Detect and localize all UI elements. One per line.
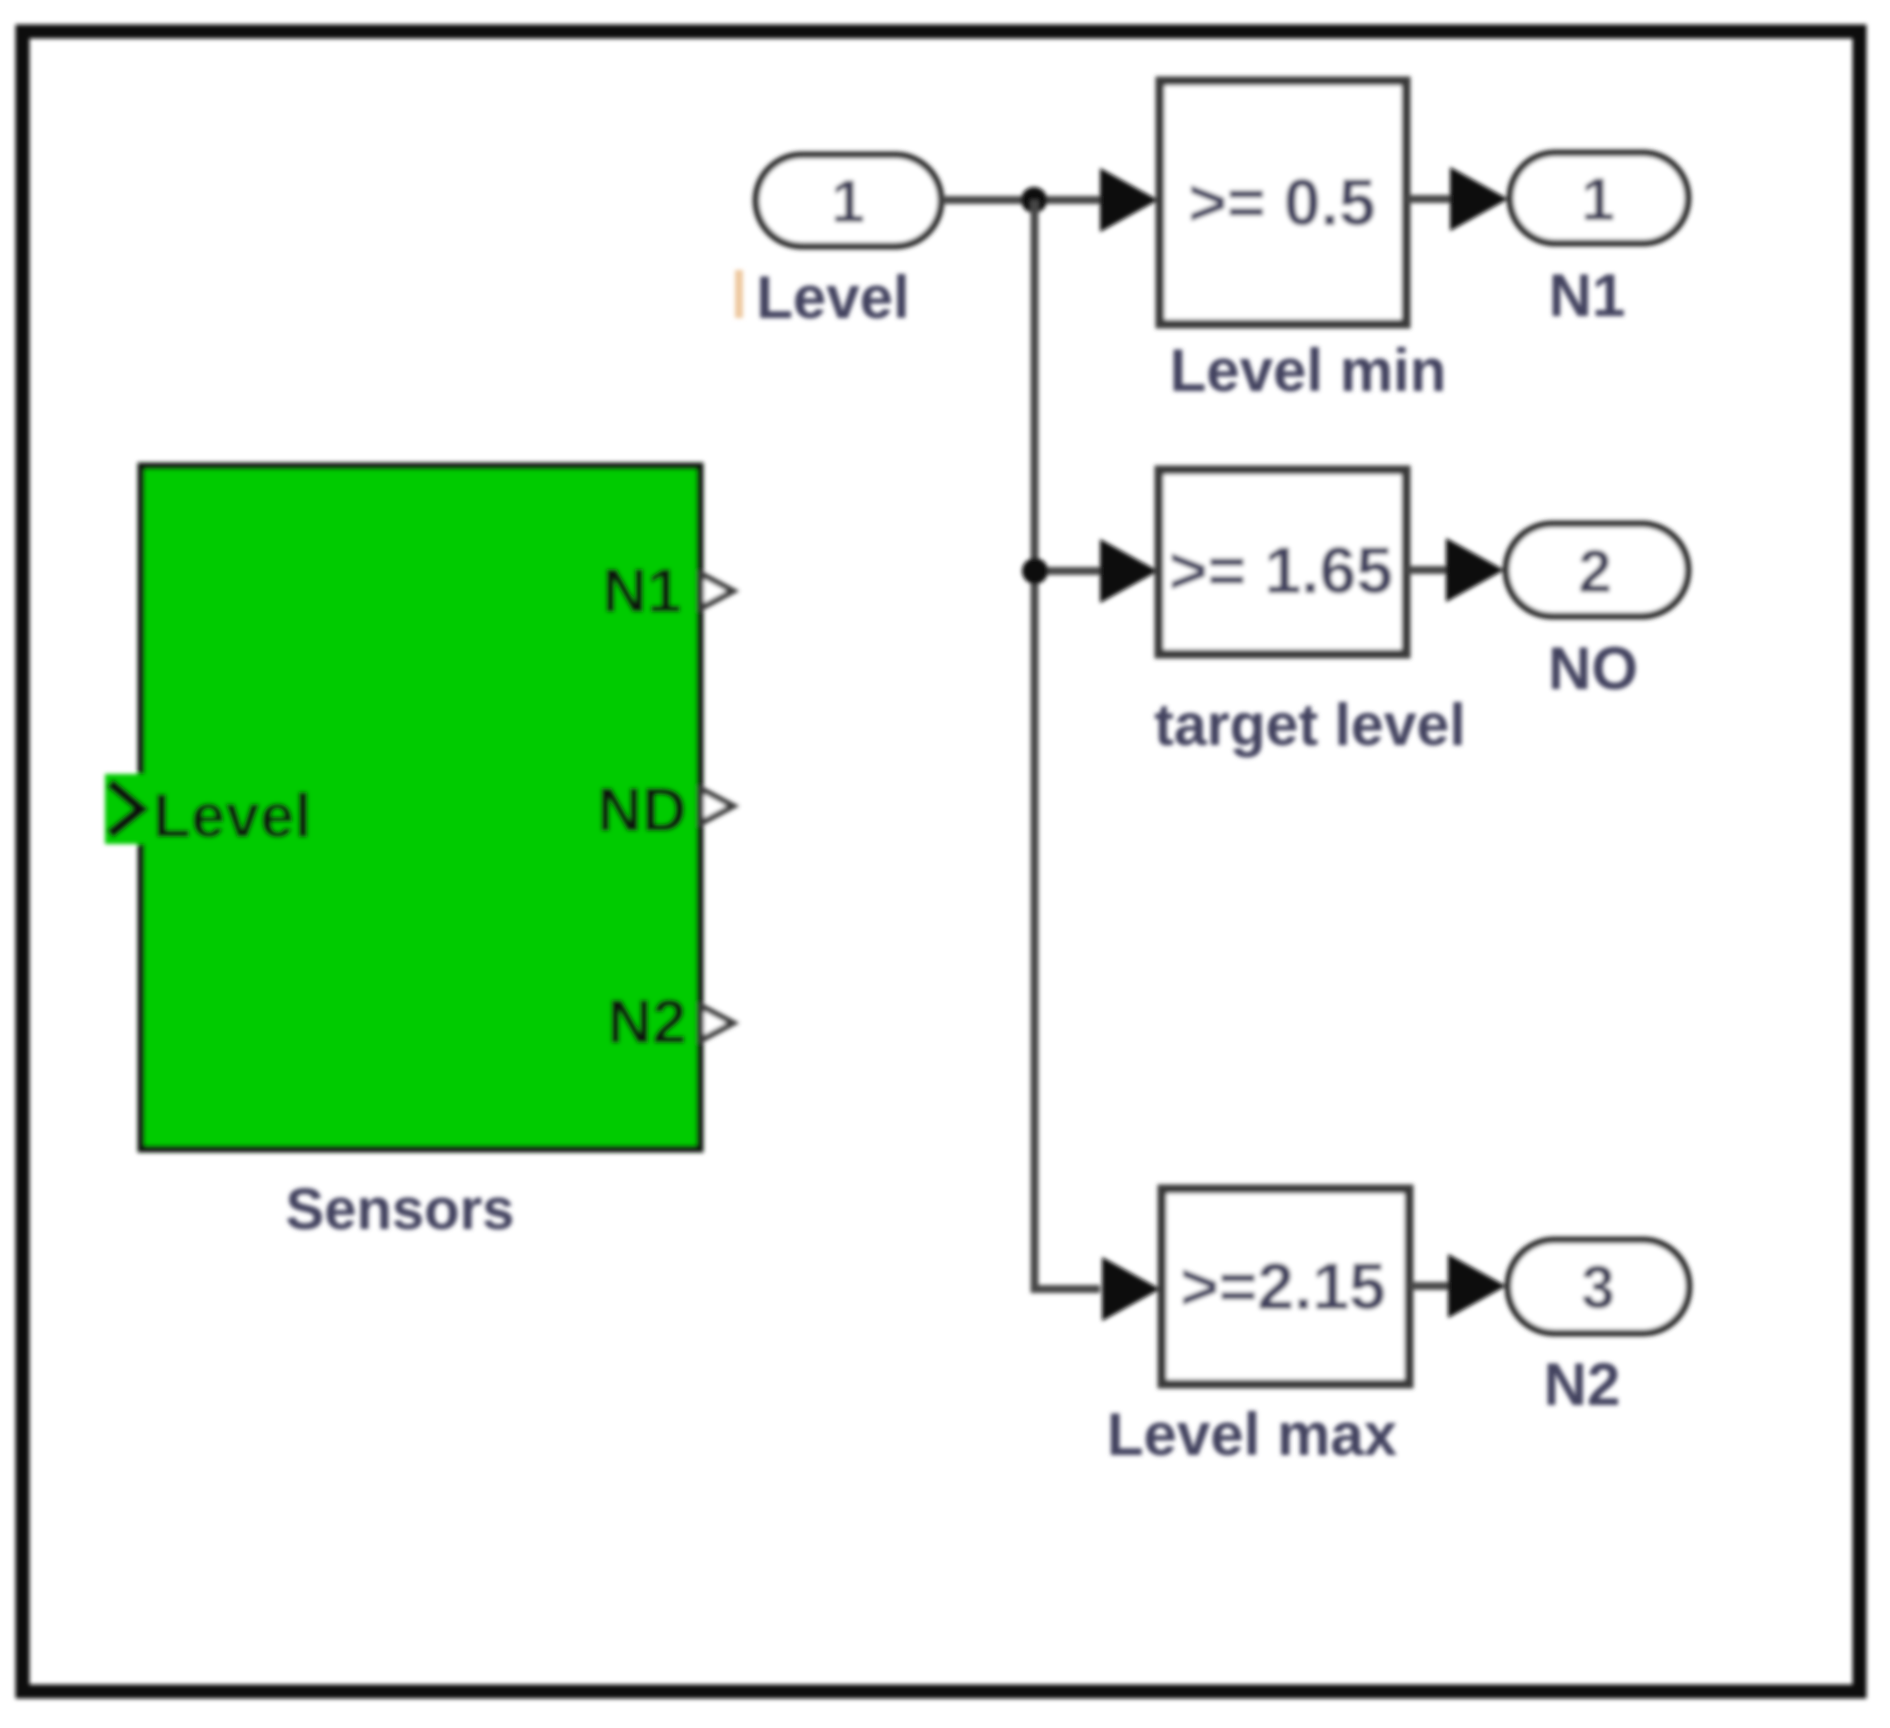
wire Level max to outport N2 xyxy=(1409,1282,1452,1290)
relational block Level max (>= 2.15) xyxy=(1162,1189,1409,1384)
output chevron N1 xyxy=(701,574,733,608)
arrowhead into target level xyxy=(1100,539,1158,603)
inport 1 (Level) xyxy=(756,155,941,246)
svg-text:Sensors: Sensors xyxy=(286,1177,515,1242)
svg-text:Level min: Level min xyxy=(1170,337,1447,404)
output chevron ND xyxy=(701,789,733,823)
svg-text:1: 1 xyxy=(831,168,864,235)
arrowhead into Level min xyxy=(1100,168,1158,232)
relational block target level (>= 1.65) xyxy=(1159,470,1406,654)
svg-text:N2: N2 xyxy=(607,988,686,1057)
svg-text:2: 2 xyxy=(1578,538,1611,605)
arrowhead into outport N2 xyxy=(1448,1254,1506,1318)
outport 3 (N2) xyxy=(1508,1240,1689,1333)
wire target level to outport NO xyxy=(1406,566,1450,574)
wire corner into Level max xyxy=(1035,1285,1101,1289)
svg-text:target level: target level xyxy=(1154,692,1466,758)
svg-text:>= 1.65: >= 1.65 xyxy=(1169,533,1393,607)
svg-text:Level max: Level max xyxy=(1107,1401,1397,1468)
svg-text:>=2.15: >=2.15 xyxy=(1180,1249,1386,1323)
arrowhead into Level max xyxy=(1102,1257,1160,1321)
relational block Level min (>= 0.5) xyxy=(1160,81,1406,324)
junction A dot xyxy=(1021,187,1047,213)
wire junction B to target level xyxy=(1034,567,1102,575)
wire vertical branch xyxy=(1031,200,1039,1285)
svg-text:1: 1 xyxy=(1581,166,1614,233)
svg-text:Level: Level xyxy=(756,264,909,331)
outport 1 (N1) xyxy=(1510,153,1688,243)
svg-text:3: 3 xyxy=(1581,1254,1614,1321)
wire Level min to outport N1 xyxy=(1406,195,1455,203)
svg-text:N2: N2 xyxy=(1544,1351,1621,1418)
subsystem Sensors xyxy=(141,466,700,1149)
cursor artifact xyxy=(735,270,743,318)
svg-text:NO: NO xyxy=(1548,635,1638,702)
arrowhead into outport NO xyxy=(1446,538,1504,602)
junction B dot xyxy=(1022,558,1048,584)
svg-text:N1: N1 xyxy=(1549,262,1626,329)
svg-text:>= 0.5: >= 0.5 xyxy=(1188,165,1375,239)
port patch Level (input highlight) xyxy=(105,774,145,844)
input port chevron of Sensors xyxy=(110,783,141,834)
svg-text:Level: Level xyxy=(153,782,312,851)
svg-text:ND: ND xyxy=(597,776,687,845)
wire inport to junction A xyxy=(941,196,1105,204)
svg-text:N1: N1 xyxy=(602,557,681,626)
outport 2 (NO) xyxy=(1506,524,1688,616)
arrowhead into outport N1 xyxy=(1450,167,1508,231)
output chevron N2 xyxy=(701,1006,733,1040)
